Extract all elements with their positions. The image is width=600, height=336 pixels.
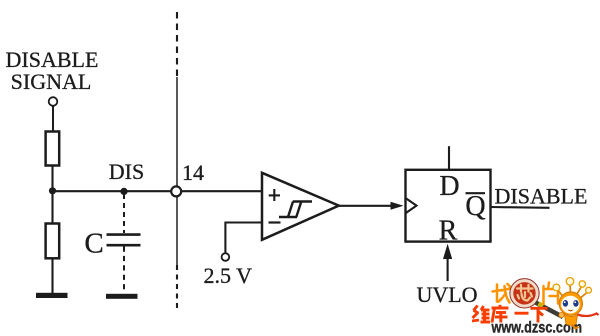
plus sign [269,194,280,196]
wire UVLO arrow [447,254,449,281]
wire R2 to ground [51,258,53,293]
mascot foot [572,325,579,329]
watermark magnifier outer rim [510,279,539,308]
minus sign [269,221,281,223]
watermark magnifier ring [512,281,537,306]
flip-flop U2 [406,170,491,242]
label Q-bar [466,192,486,194]
wire terminal to R1 [52,106,54,132]
watermark group [472,278,599,336]
mascot antenna stalks [558,284,588,298]
mascot eyes [563,300,568,307]
wire DIS horizontal [53,190,263,192]
terminal circle input [49,97,58,106]
dashed wire to capacitor [123,194,125,233]
clock input triangle [406,198,417,213]
ground capacitor [106,294,138,299]
mascot face [561,296,580,314]
IC boundary dashed line bottom [176,265,178,312]
watermark char pian (chip) [544,283,559,305]
xia [531,307,548,310]
IC boundary dashed line top [176,12,178,77]
mascot antenna balls [553,284,560,291]
IC boundary line middle [176,77,178,265]
capacitor C plates [107,233,141,236]
svg-text:DISABLE: DISABLE [495,184,588,209]
arrowhead to flip-flop clock [391,202,404,210]
wire comparator output [339,205,393,207]
arrowhead UVLO to R [443,244,452,259]
node junction dot left [49,187,56,194]
wire R1 to R2 [51,166,53,224]
mascot head [559,292,582,315]
svg-text:2.5 V: 2.5 V [204,263,253,288]
watermark magnifier handle [536,303,564,318]
svg-text:SIGNAL: SIGNAL [11,69,92,94]
ground left [36,293,68,298]
resistor R2 [46,224,60,259]
dashed wire capacitor to ground [123,247,125,294]
svg-text:DIS: DIS [109,159,144,184]
junction dot capacitor branch [120,188,127,195]
svg-text:D: D [439,171,459,202]
wire 2.5V reference [225,223,262,254]
comparator U1 [262,173,339,240]
ku [499,305,502,308]
wei [474,306,478,311]
watermark char zhao (find) [493,284,511,303]
watermark char xin (core) inside magnifier [517,285,533,301]
wire Q-bar output [491,206,550,209]
svg-text:Q: Q [465,191,485,222]
watermark text weiku yixia (red) [472,305,548,323]
terminal circle 2.5V [222,253,230,261]
mascot mouth [568,309,572,312]
mascot red ribbon [578,314,599,317]
mascot hand on handle [559,312,564,317]
yi [515,312,529,315]
svg-text:UVLO: UVLO [416,282,477,307]
pin 14 node circle [171,186,181,196]
wire stub top of flip-flop [448,146,450,170]
svg-text:R: R [439,216,458,247]
svg-text:14: 14 [182,160,204,185]
hysteresis symbol [279,202,312,218]
svg-text:C: C [84,228,103,260]
resistor R1 [46,132,60,166]
mascot body [565,315,578,326]
